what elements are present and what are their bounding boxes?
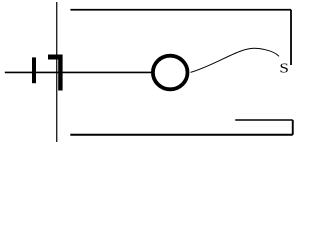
svg-text:S: S — [279, 61, 289, 76]
